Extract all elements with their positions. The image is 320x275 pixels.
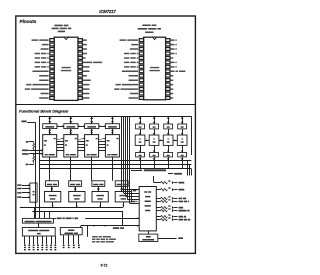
pin label SEG b [83, 48, 87, 50]
pin 1 stub [50, 39, 54, 42]
driver DR2 [150, 153, 159, 157]
output wire [174, 182, 177, 184]
pin label UP/DOWN [41, 48, 49, 50]
pin 7 stub [139, 65, 143, 68]
pin 13 stub [139, 92, 143, 95]
output latch OL3 [164, 124, 173, 129]
segment decoder D2 [149, 135, 159, 145]
pin 25 stub [78, 52, 82, 55]
reg input label [17, 184, 21, 186]
output wire [174, 207, 177, 209]
segment output pin wire [24, 236, 26, 244]
pin 14 stub [139, 97, 143, 100]
control logic box U3 [139, 187, 156, 231]
output latch OL4 [178, 124, 187, 129]
CARRY/BORROW label [144, 169, 166, 171]
pin label SEG a [171, 62, 175, 64]
carry wire [99, 150, 106, 152]
pin label ZERO [129, 75, 138, 77]
digit mux wire [81, 225, 139, 227]
pin 8 stub [139, 70, 143, 73]
output label [179, 210, 187, 212]
drop to mux wire [44, 211, 46, 218]
SCAN label [178, 237, 183, 239]
section divider line [16, 104, 196, 106]
comparator CP3 [92, 192, 108, 202]
output wire [156, 207, 160, 209]
pin label LOAD REGISTER/OFF [116, 84, 121, 86]
pin 27 stub [78, 43, 82, 46]
wire driver-bus [140, 157, 142, 169]
pin 3 stub [50, 48, 54, 51]
pin label BCD I/O 4 [124, 57, 129, 59]
svg-text:ICM7217: ICM7217 [99, 9, 116, 14]
pin label COUNT INPUT [32, 39, 39, 41]
decoder link arrow [145, 140, 149, 142]
V+ label [168, 180, 170, 181]
wire comp down [76, 202, 78, 207]
output wire [154, 182, 161, 184]
pin label SEG dp [83, 84, 90, 86]
wire rail-latch [70, 116, 72, 124]
V+ label [168, 208, 170, 209]
BCD bundle wire [123, 117, 125, 193]
V+ label [168, 187, 170, 188]
wire rail-outlatch [182, 116, 184, 124]
output label [179, 182, 185, 184]
pin label STORE [42, 44, 49, 46]
chip center label ICM7217 [150, 67, 159, 68]
output label [179, 189, 185, 191]
drop to mux wire [34, 207, 36, 218]
pin 26 stub [78, 48, 82, 51]
header line: TOP VIEW [58, 31, 65, 33]
pin label EQUAL [39, 79, 48, 81]
pin 23 stub [78, 61, 82, 64]
carry wire [78, 147, 85, 149]
pin 18 stub [166, 83, 170, 86]
COUNT label [22, 153, 29, 155]
V+ label [168, 217, 170, 218]
digit output pin wire [78, 235, 80, 244]
pin 5 stub [50, 56, 54, 59]
pin label CARRY/BORROW [32, 71, 48, 73]
pin label UP/DOWN [130, 48, 138, 50]
pin 5 stub [139, 56, 143, 59]
latch link wire [57, 126, 64, 128]
pin 27 stub [166, 43, 170, 46]
ZERO label [174, 173, 182, 175]
counter C3 [85, 135, 99, 157]
scan oscillator box [139, 234, 158, 241]
V+ label [26, 141, 29, 143]
segment decoder D4 [177, 135, 187, 145]
svg-text:Functional Block Diagram: Functional Block Diagram [19, 109, 69, 114]
carry wire [78, 150, 85, 152]
bus bend wire [191, 169, 193, 176]
decoder link arrow [159, 140, 163, 142]
output latch OL2 [150, 124, 159, 129]
segment output pin wire [29, 236, 31, 244]
pin 8 stub [50, 70, 54, 73]
wire decoder-driver [154, 145, 156, 152]
left rail drop wire [39, 116, 41, 218]
stub wire [87, 226, 89, 237]
pin 12 stub [139, 88, 143, 91]
wire latch2-comp [75, 186, 77, 191]
segment output pin wire [42, 236, 44, 244]
pin label D2 [171, 88, 174, 90]
pin label EQUAL [129, 79, 138, 81]
functional block diagram [17, 116, 191, 250]
wire driver-bus [182, 157, 184, 169]
counter C4 [105, 135, 119, 157]
output wire [156, 216, 160, 218]
wire latch-decoder [140, 129, 142, 135]
digit output pin wire [68, 235, 70, 244]
feed wire to store output [153, 176, 155, 183]
V+ label [168, 214, 170, 215]
decoder link arrow [173, 140, 177, 142]
segment driver box [22, 228, 55, 237]
pin label V- [171, 75, 174, 77]
latch2 LB1 [46, 181, 59, 187]
pin 16 stub [166, 92, 170, 95]
header line: TOP VIEW [145, 31, 153, 33]
pin 3 stub [139, 48, 143, 51]
BCD bus wire [39, 164, 191, 166]
output wire [174, 201, 177, 203]
segment multiplexer box [22, 218, 53, 223]
pin label CARRY/BORROW [122, 71, 138, 73]
pin label D3 [83, 97, 90, 99]
pin label RESET [129, 97, 138, 99]
pulldown resistor R2 [33, 154, 35, 164]
wire counter to latch2 [70, 157, 72, 181]
bundle label [131, 190, 132, 191]
driver DR4 [178, 153, 187, 157]
DIP chip U2 right pinout [114, 24, 185, 99]
pin label LOAD COUNTER/I/O OFF [114, 88, 119, 90]
BCD bundle wire [127, 117, 129, 200]
pin 20 stub [78, 74, 82, 77]
note text [92, 236, 98, 238]
header line: COMMON CATHODE LED [52, 28, 59, 30]
right rail drop wire [191, 116, 193, 155]
UP/DOWN label [22, 150, 29, 152]
carry wire [99, 147, 106, 149]
pin label BCD 1 [171, 53, 175, 55]
pin 19 stub [78, 79, 82, 82]
pin label BCD I/O 8 [124, 53, 129, 55]
carry wire [57, 144, 64, 146]
pin label D1 [171, 93, 174, 95]
carry wire [99, 141, 106, 143]
digit output pin wire [63, 235, 65, 244]
junction dot [33, 150, 35, 152]
pin label COUNT INPUT [120, 39, 127, 41]
latch L1 [43, 124, 57, 129]
V+ label [168, 205, 170, 206]
pin label BCD I/O 2 [124, 62, 129, 64]
carry wire [78, 141, 85, 143]
pin 2 stub [139, 43, 143, 46]
digit mux label [113, 227, 120, 229]
pin label SEG e [83, 79, 91, 81]
latch L2 [64, 124, 78, 129]
comparator CP2 [69, 192, 85, 202]
display blank label [57, 218, 62, 220]
wire latch-counter [49, 129, 51, 135]
latch2 LB3 [92, 181, 105, 187]
boxC top stub wire [80, 226, 82, 228]
wire v+ [29, 141, 34, 143]
carry wire [131, 170, 142, 172]
output wire [174, 189, 177, 191]
counter C2 [64, 135, 78, 157]
segment output pin wire [37, 236, 39, 244]
carry wire [57, 141, 64, 143]
V+ label [168, 196, 170, 197]
pin 13 stub [50, 92, 54, 95]
wire rail-latch [49, 116, 51, 124]
reg input wire [22, 185, 30, 187]
pin 4 stub [139, 52, 143, 55]
header line: ICM7217 PDIP [54, 25, 62, 27]
svg-text:5-72: 5-72 [101, 264, 108, 268]
output label [179, 201, 184, 203]
digit output pin wire [73, 235, 75, 244]
pin label BCD 4 [171, 44, 175, 46]
pin 9 stub [139, 74, 143, 77]
notch [153, 37, 157, 39]
segment output pin wire [55, 236, 57, 244]
page border [16, 16, 196, 253]
pin label D1 [83, 88, 90, 90]
pin 24 stub [78, 56, 82, 59]
carry arrow [79, 138, 84, 139]
pin 7 stub [50, 65, 54, 68]
wire v- [29, 164, 34, 166]
header line: ICM7217A PDIP [142, 24, 150, 26]
pin label V+ [171, 57, 174, 59]
pin label BCD I/O 1 [35, 66, 40, 68]
BCD bundle wire [129, 117, 131, 203]
pin 28 stub [78, 39, 82, 42]
PWR wire [27, 122, 35, 124]
wire latch2-comp [51, 186, 53, 191]
pin label BCD 2 [171, 48, 175, 50]
wire decoder-driver [140, 145, 142, 152]
wire box-osc [148, 231, 150, 234]
output label [179, 219, 184, 221]
BCD bus wire [39, 160, 191, 162]
wire latch-decoder [154, 129, 156, 135]
wire driver-bus [154, 157, 156, 169]
osc out wire [158, 238, 177, 240]
output wire [156, 210, 160, 212]
segment output pin wire [46, 236, 48, 244]
pin 4 stub [50, 52, 54, 55]
comparator CP4 [115, 192, 131, 202]
pin label BCD I/O 2 [35, 62, 40, 64]
wire rail-latch [91, 116, 93, 124]
pin label SCAN [130, 93, 138, 95]
pin 6 stub [139, 61, 143, 64]
wire rail-latch [112, 116, 114, 124]
carry wire [99, 144, 106, 146]
reg input wire [22, 192, 30, 194]
junction dot [33, 153, 35, 155]
pin label SEG g [83, 75, 87, 77]
output wire [174, 216, 177, 218]
output wire [174, 219, 177, 221]
wire counter to latch2 [112, 157, 114, 181]
reg input wire [22, 197, 30, 199]
bus bend wire [187, 160, 189, 175]
pin label DP [171, 97, 174, 99]
driver DR1 [136, 153, 145, 157]
output label [179, 216, 184, 218]
carry arrow [99, 138, 104, 139]
pin 9 stub [50, 74, 54, 77]
latch link wire [78, 126, 85, 128]
pin label D3 [171, 84, 174, 86]
chip center label ICM7217 [62, 67, 71, 68]
pin 10 stub [50, 79, 54, 82]
pin 20 stub [166, 74, 170, 77]
pin 11 stub [139, 83, 143, 86]
wire driver-bus [168, 157, 170, 169]
latch link wire [99, 126, 106, 128]
pin label V- [83, 57, 86, 59]
pin label SEG a [83, 71, 90, 73]
bundle drop to digit mux wire [122, 211, 124, 226]
latch2 LB4 [115, 181, 128, 187]
collect wire 2 [32, 211, 123, 213]
pin 17 stub [166, 88, 170, 91]
V+ label [168, 199, 170, 200]
output latch OL1 [136, 124, 145, 129]
output wire [174, 198, 177, 200]
pin 26 stub [166, 48, 170, 51]
pin 23 stub [166, 61, 170, 64]
UP/DOWN wire [29, 150, 43, 152]
COUNT wire [29, 153, 43, 155]
pin label SCAN [41, 93, 49, 95]
pin 25 stub [166, 52, 170, 55]
pin label ZERO [39, 75, 48, 77]
drop to mux wire [49, 211, 51, 218]
pin 24 stub [166, 56, 170, 59]
wire latch-decoder [182, 129, 184, 135]
wire comp down [100, 202, 102, 207]
wire counter to latch2 [49, 157, 51, 181]
output wire [156, 189, 160, 191]
pin 14 stub [50, 97, 54, 100]
pin label DIG AT POS [171, 71, 175, 73]
pin label BCD I/O 8 [35, 53, 40, 55]
BCD bundle wire [121, 117, 123, 190]
pin 16 stub [78, 92, 82, 95]
chip body [54, 37, 78, 100]
pin 22 stub [166, 65, 170, 68]
pin label BCD 8 [171, 39, 175, 41]
PWR drop wire [35, 123, 37, 219]
zero wire [168, 173, 173, 175]
output wire [156, 198, 160, 200]
counter C1 [43, 135, 57, 157]
output label [179, 207, 184, 209]
pullup resistor R1 [33, 142, 35, 151]
header line: COMMON ANODE LED DISPLAY [138, 28, 148, 30]
wire latch-decoder [168, 129, 170, 135]
segment output pin wire [51, 236, 53, 244]
pin label LOAD REGISTER/OFF [26, 84, 31, 86]
collect wire 1 [20, 207, 123, 209]
wire rail-outlatch [154, 116, 156, 124]
BCD bus wire [39, 168, 191, 170]
drop to mux wire [39, 211, 41, 218]
carry wire [57, 150, 64, 152]
wire comp down [123, 202, 125, 207]
pin label LOAD COUNTER/I/O OFF [25, 88, 30, 90]
segment decoder D1 [135, 135, 145, 145]
top rail wire [39, 116, 191, 118]
carry arrow [58, 138, 64, 139]
chip body [144, 37, 166, 100]
segment output pin wire [33, 236, 35, 244]
pin 28 stub [166, 39, 170, 42]
wire latch-counter [112, 129, 114, 135]
DIP chip U1 left pinout [25, 25, 102, 101]
pin 21 stub [166, 70, 170, 73]
wire rail-outlatch [140, 116, 142, 124]
pin 15 stub [166, 97, 170, 100]
output label [179, 198, 182, 200]
pin 17 stub [78, 88, 82, 91]
pin 2 stub [50, 43, 54, 46]
wire latch-counter [70, 129, 72, 135]
svg-text:Pinouts: Pinouts [20, 19, 37, 24]
pin 10 stub [139, 79, 143, 82]
reg input label [17, 192, 21, 194]
latch L3 [85, 124, 99, 129]
pin label SEG c [83, 66, 90, 68]
pin 6 stub [50, 61, 54, 64]
wire latch2-comp [121, 186, 123, 191]
reg input wire [22, 188, 30, 190]
pin 19 stub [166, 79, 170, 82]
wire rail-outlatch [168, 116, 170, 124]
pin label V+ [83, 39, 87, 41]
driver DR3 [164, 153, 173, 157]
pin 15 stub [78, 97, 82, 100]
pin label D2 [83, 93, 90, 95]
pin label RESET [39, 97, 48, 99]
pin 18 stub [78, 83, 82, 86]
pin 22 stub [78, 65, 82, 68]
latch L4 [105, 124, 119, 129]
wire counter to latch2 [91, 157, 93, 181]
PWR label [21, 121, 26, 123]
pin 12 stub [50, 88, 54, 91]
output wire [174, 210, 177, 212]
V- label [26, 164, 29, 166]
wire decoder-driver [182, 145, 184, 152]
reg input label [17, 188, 21, 190]
pin label DISPLAY CONTROL [83, 62, 92, 64]
